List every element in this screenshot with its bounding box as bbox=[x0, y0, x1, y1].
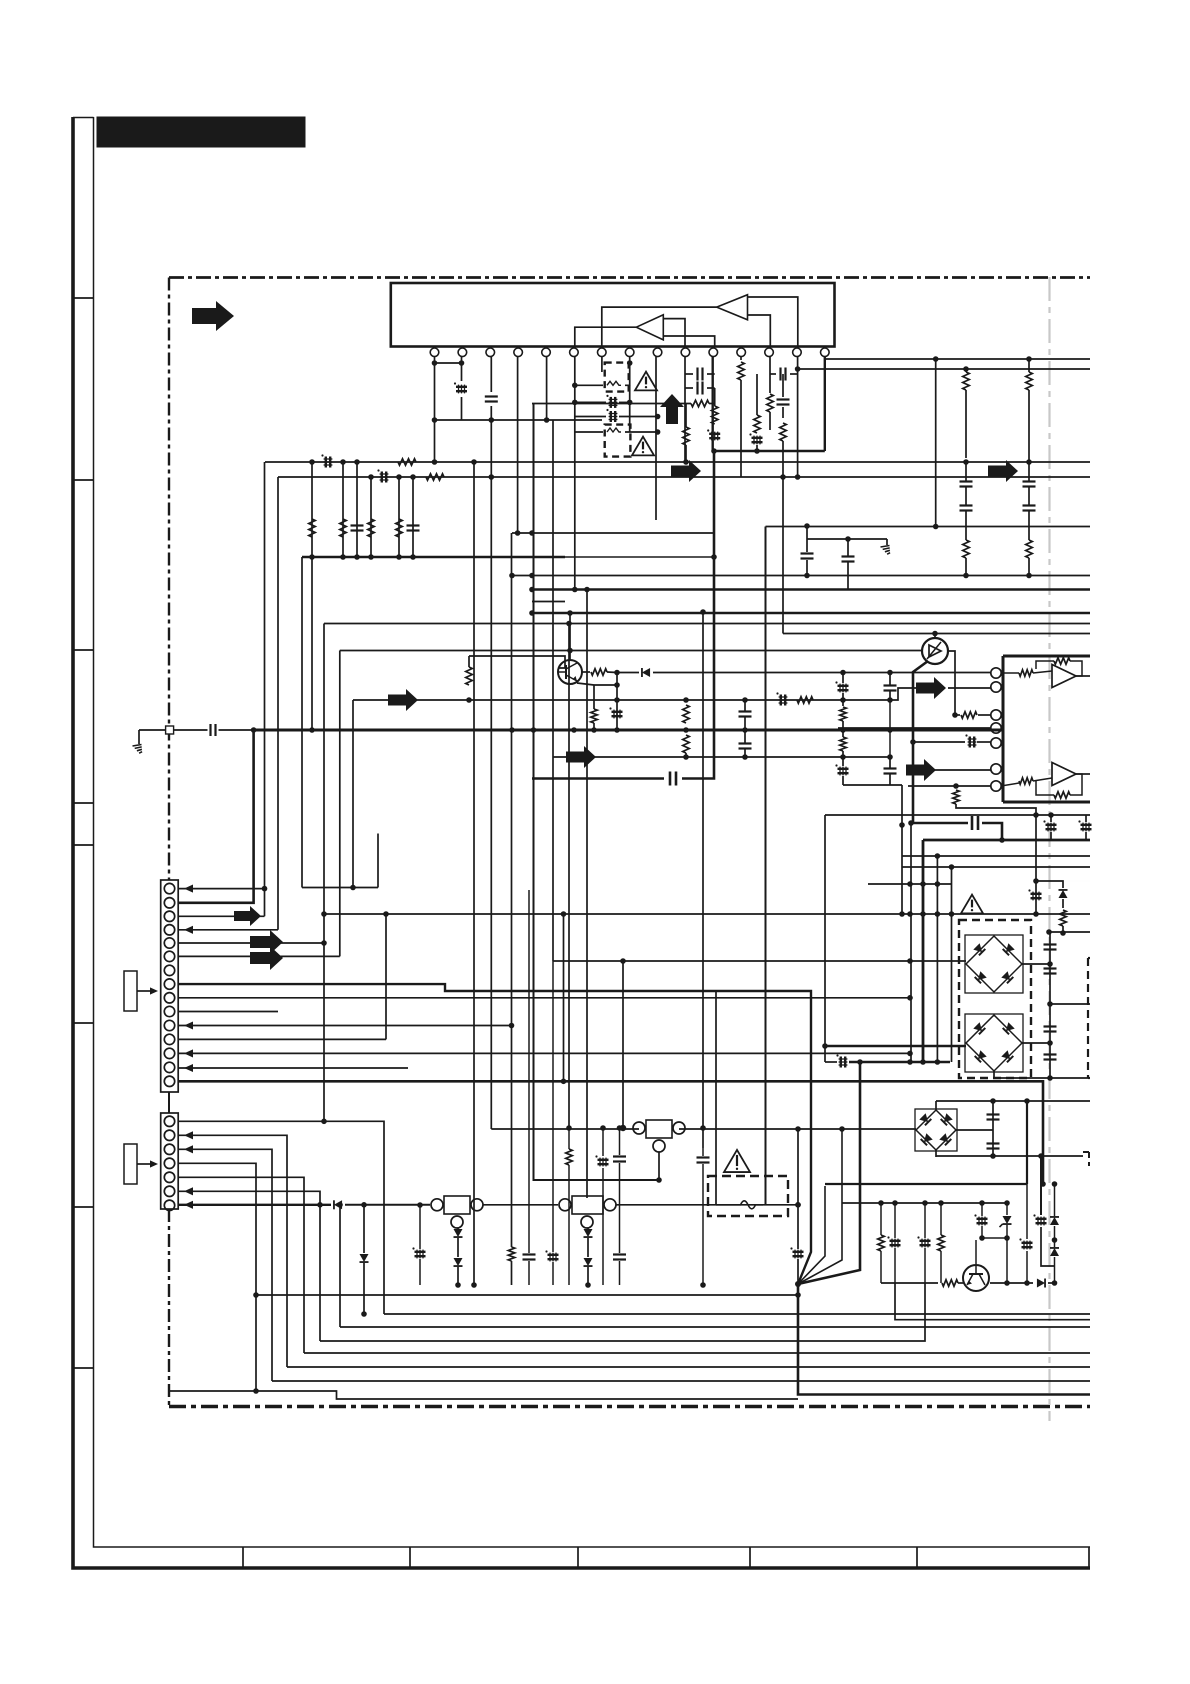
connector J1 pin 11 bbox=[164, 1020, 174, 1030]
capacitor C35 (electrolytic) bbox=[1031, 893, 1042, 895]
resistor R38 bbox=[840, 707, 847, 721]
wire R2 v bbox=[685, 403, 687, 427]
wire F3 left lead bbox=[716, 1204, 733, 1206]
diode D8 bbox=[1050, 1248, 1059, 1256]
resistor R23 bbox=[953, 790, 960, 804]
junction y884 bbox=[907, 881, 913, 887]
resistor R31 bbox=[878, 1235, 885, 1251]
wire D2-REG1 bbox=[345, 1204, 430, 1206]
transistor Q2 (buffer) bbox=[922, 638, 948, 664]
wire J1.11 bbox=[179, 1025, 512, 1027]
resistor R17 bbox=[396, 519, 403, 537]
wire R11 d bbox=[1028, 558, 1030, 576]
wire R10 t bbox=[1028, 359, 1030, 372]
fold line (grey dash-dot) bbox=[1048, 277, 1050, 1421]
U1 pin 15 bbox=[821, 348, 830, 357]
resistor R12 bbox=[398, 459, 416, 466]
wire x603 col bbox=[602, 1128, 604, 1156]
junction y557 bbox=[410, 554, 416, 560]
resistor R37 bbox=[591, 709, 598, 723]
junction REG3b bbox=[656, 1177, 662, 1183]
resistor R9 bbox=[963, 540, 970, 558]
junction V2 bbox=[410, 474, 416, 480]
wire R22 out bbox=[978, 714, 991, 716]
junction bus730 bbox=[614, 727, 620, 733]
wire rail y932 bbox=[1049, 931, 1090, 933]
wire bus b5 bbox=[304, 1352, 1090, 1354]
junction pin8 bbox=[627, 360, 633, 366]
page inner border (thin) bbox=[94, 117, 1091, 1547]
wire drop x587 bbox=[586, 590, 588, 1199]
junction C31 in bbox=[910, 739, 916, 745]
wire REG3 bottom stub bbox=[658, 1152, 660, 1180]
capacitor C40 bbox=[1044, 1053, 1057, 1055]
wire R28 d bbox=[1062, 926, 1064, 933]
wire rail y613 (thick) bbox=[532, 612, 1090, 614]
junction x798 y1205 bbox=[795, 1202, 801, 1208]
capacitor C28 bbox=[884, 684, 897, 686]
capacitor C52 (electrolytic) bbox=[977, 1218, 988, 1220]
capacitor C26 bbox=[842, 555, 855, 557]
wire net y757 bbox=[553, 756, 890, 758]
capacitor C23 bbox=[739, 742, 752, 744]
wire ground stub bbox=[138, 730, 140, 744]
capacitor C36 (electrolytic) bbox=[840, 1057, 842, 1068]
capacitor C7 (electrolytic) bbox=[709, 433, 720, 435]
capacitor C37 bbox=[1044, 943, 1057, 945]
capacitor C32 (electrolytic) bbox=[1046, 824, 1057, 826]
wire x951 drop bbox=[951, 867, 953, 1062]
wire op2 out bbox=[1076, 773, 1090, 775]
wire net V2 (y477) bbox=[278, 476, 1090, 478]
wire C32 v bbox=[1050, 815, 1052, 822]
junction x703 y1285 bbox=[700, 1282, 706, 1288]
connector J1 pin 6 bbox=[164, 951, 174, 961]
connector J2 body bbox=[161, 1113, 179, 1209]
U1 pin14 drop bbox=[797, 357, 799, 477]
capacitor C25 bbox=[801, 552, 814, 554]
fuse F3 symbol bbox=[733, 1201, 763, 1209]
resistor R10 bbox=[1026, 372, 1033, 390]
junction y557 bbox=[340, 554, 346, 560]
junction R7b bbox=[780, 474, 786, 480]
connector J2 pin 5 bbox=[164, 1172, 174, 1182]
connector J2 pin 1 bbox=[164, 1116, 174, 1126]
bottom strip divider bbox=[242, 1547, 244, 1568]
REG1 pin bottom bbox=[451, 1216, 463, 1228]
resistor R27 (feedback) bbox=[1054, 792, 1070, 799]
wire Q1 emitter bbox=[577, 683, 594, 685]
wire C19 to bus bbox=[219, 729, 254, 731]
junction C52t bbox=[979, 1200, 985, 1206]
wire rail y815 bbox=[825, 814, 1090, 816]
junction fan bbox=[795, 1281, 801, 1287]
junction pin7 tap bbox=[953, 783, 959, 789]
ground GND1 bbox=[133, 745, 142, 747]
junction y1062 bbox=[920, 1059, 926, 1065]
junction y1391 x256 bbox=[253, 1388, 259, 1394]
junction pin1 y462 bbox=[432, 459, 438, 465]
block input pin 4 bbox=[991, 723, 1001, 733]
junction y1283 x1054 bbox=[1052, 1280, 1058, 1286]
signal arrow A7 bbox=[916, 677, 946, 699]
junction y1129 x798 bbox=[795, 1126, 801, 1132]
wire R9 d bbox=[965, 558, 967, 576]
wire C5 link bbox=[685, 373, 693, 375]
fuse F1 box (dashed) bbox=[605, 363, 629, 392]
wire fan leg x824 bbox=[798, 1186, 825, 1284]
capacitor C4 (electrolytic series) bbox=[610, 411, 612, 422]
wire x783 riser bbox=[782, 477, 784, 634]
U1 pin 11 bbox=[709, 348, 718, 357]
junction J2.6 x320 bbox=[317, 1202, 323, 1208]
junction Q1c bbox=[567, 648, 573, 654]
wire J1.1 bbox=[179, 888, 265, 890]
wire C53 v bbox=[1040, 1156, 1042, 1215]
connector J1 pin 2 bbox=[164, 898, 174, 908]
diode D1 bbox=[1059, 890, 1068, 898]
signal arrow A2 (up, under U1) bbox=[660, 394, 684, 424]
junction BR3 t bbox=[990, 1098, 996, 1104]
wire C22 links bbox=[744, 700, 746, 711]
connector J1 pin 13 bbox=[164, 1048, 174, 1058]
wire rail y451 (thick) bbox=[713, 450, 825, 453]
wire drop x703 bbox=[702, 612, 704, 1148]
wire rail y575 bbox=[512, 575, 1090, 577]
wire drop x474 bbox=[473, 462, 475, 1285]
junction y757 x843 bbox=[840, 754, 846, 760]
U1 pin 7 bbox=[597, 348, 606, 357]
junction y451a bbox=[711, 448, 717, 454]
REG3 pin left bbox=[633, 1122, 645, 1134]
wire x617 drop bbox=[616, 673, 618, 731]
wire C6 l bbox=[685, 387, 693, 389]
page margin tick bbox=[73, 1022, 94, 1024]
junction x364 b bbox=[361, 1311, 367, 1317]
U1 pin 10 bbox=[681, 348, 690, 357]
wire x619 col bbox=[619, 1128, 621, 1155]
junction y1295 bbox=[795, 1292, 801, 1298]
capacitor C8 bbox=[779, 368, 781, 381]
U1 pin11 drop (bus) bbox=[712, 357, 714, 451]
resistor R7 bbox=[780, 423, 787, 441]
junction Q2t bbox=[932, 631, 938, 637]
wire net left V1 start bbox=[264, 462, 266, 916]
wire C1 bottom bbox=[461, 397, 463, 420]
wire BR3 top rail bbox=[936, 1100, 1090, 1102]
wire net y785 bbox=[843, 784, 902, 786]
signal arrow A5 bbox=[388, 689, 418, 711]
junction C53t bbox=[1038, 1153, 1044, 1159]
connector J1 pin 8 bbox=[164, 979, 174, 989]
junction p1 rail bbox=[432, 417, 438, 423]
diode D2 bbox=[334, 1200, 342, 1209]
block input pin 5 bbox=[991, 738, 1001, 748]
capacitor C16 (electrolytic series) bbox=[381, 472, 383, 483]
wire rail y651 bbox=[340, 650, 922, 652]
wire pin5 feed bbox=[913, 741, 965, 743]
U1 pin 12 bbox=[737, 348, 746, 357]
block input pin 6 bbox=[991, 764, 1001, 774]
wire x890 mid bbox=[889, 700, 891, 757]
capacitor C42 bbox=[987, 1142, 1000, 1144]
wire C23 links bbox=[744, 730, 746, 743]
diode D11 (series) bbox=[642, 668, 650, 677]
wire R38 d bbox=[842, 721, 844, 737]
wire C9 v bbox=[782, 374, 784, 397]
wire R8 t bbox=[965, 369, 967, 372]
wire rail y403 bbox=[532, 403, 691, 405]
U1 pin 14 bbox=[793, 348, 802, 357]
wire D8 v bbox=[1054, 1257, 1056, 1283]
wire drop x302 bbox=[301, 557, 303, 888]
junction R28b bbox=[1060, 930, 1066, 936]
junction R8c bbox=[963, 459, 969, 465]
page margin tick bbox=[73, 1206, 94, 1208]
signal arrow A6 bbox=[566, 746, 596, 768]
wire net y961 bbox=[553, 960, 966, 962]
wire x895 ext bbox=[895, 1283, 1090, 1320]
junction V1 bbox=[309, 459, 315, 465]
junction y1203 x941 bbox=[938, 1200, 944, 1206]
wire D1 v bbox=[1062, 899, 1064, 908]
wire net y1203 bbox=[842, 1202, 1007, 1204]
REG1 pin right bbox=[471, 1199, 483, 1211]
wire drop x357 bbox=[356, 462, 358, 557]
wire J1.3 bbox=[179, 915, 265, 917]
wire net y823 (thick) bbox=[913, 822, 968, 825]
wire drop x716 bbox=[715, 991, 717, 1205]
wire y1062 l bbox=[825, 1061, 837, 1063]
wire net y672 right bbox=[653, 672, 991, 674]
capacitor C9 bbox=[777, 398, 790, 400]
diode D7 bbox=[1050, 1217, 1059, 1225]
U1 internal amp A (triangle) bbox=[717, 295, 748, 320]
capacitor C30 bbox=[884, 767, 897, 769]
resistor R30 bbox=[508, 1247, 515, 1261]
wire Q1 out bbox=[582, 671, 590, 673]
junction R21a bbox=[683, 697, 689, 703]
U1 wire ampB in1 bbox=[663, 319, 685, 347]
wire R6 up bbox=[756, 374, 758, 415]
amplifier block bottom (thick) bbox=[1003, 801, 1090, 804]
junction y557 bbox=[354, 554, 360, 560]
capacitor C12 bbox=[960, 504, 973, 506]
resistor R33 bbox=[942, 1280, 958, 1287]
wire J1.12 bbox=[179, 1038, 387, 1040]
bottom strip divider bbox=[749, 1547, 751, 1568]
junction x623 t bbox=[620, 958, 626, 964]
U1 wire ampB in2 bbox=[663, 336, 714, 347]
capacitor C24 (series thick) bbox=[669, 772, 672, 786]
wire x923 drop (thick) bbox=[922, 840, 925, 1062]
junction y914 bbox=[899, 911, 905, 917]
wire bus b4 bbox=[320, 1283, 925, 1341]
junction x474 t bbox=[471, 459, 477, 465]
label box K2 bbox=[124, 1144, 137, 1184]
boundary top (dash-dot) bbox=[169, 276, 1090, 279]
junction F1 in bbox=[572, 383, 578, 389]
wire boundary stub y1391 bbox=[169, 1391, 798, 1399]
junction x843 y730 bbox=[840, 727, 846, 733]
wire C5 right bbox=[707, 373, 715, 375]
connector J1 pin 5 bbox=[164, 938, 174, 948]
wire bus b3 bbox=[340, 1326, 1090, 1328]
zener diode D6 bbox=[1003, 1216, 1012, 1224]
wire x1050 bot stub bbox=[1050, 1077, 1090, 1079]
capacitor C19 (series) bbox=[209, 724, 211, 736]
U1 wire ampA in2 bbox=[748, 315, 771, 347]
resistor R5 bbox=[767, 394, 774, 412]
wire net y1129 right bbox=[679, 1128, 916, 1130]
wire x569 upper bbox=[568, 624, 570, 1129]
wire R10 down bbox=[1028, 390, 1030, 460]
wire x517 join bbox=[517, 532, 519, 534]
REG2 pin right bbox=[604, 1199, 616, 1211]
wire x911 drop bbox=[910, 823, 912, 1062]
capacitor C47 bbox=[523, 1253, 536, 1255]
REG2 pin left bbox=[559, 1199, 571, 1211]
junction C25d bbox=[804, 573, 810, 579]
op-amp OP1 bbox=[1052, 665, 1076, 688]
resistor R6 bbox=[754, 415, 761, 433]
junction y914 bbox=[949, 911, 955, 917]
U1 pin12 drop bbox=[740, 357, 742, 360]
boundary left lower (dash-dot) bbox=[168, 1209, 170, 1406]
wire C8 r bbox=[790, 373, 797, 375]
wire J2.3 bbox=[179, 1149, 273, 1381]
wire C8 l bbox=[770, 373, 776, 375]
junction C51t bbox=[922, 1200, 928, 1206]
wire drop x413 bbox=[412, 477, 414, 557]
capacitor C48 (electrolytic) bbox=[548, 1254, 559, 1256]
wire rail y369 bbox=[798, 368, 1090, 370]
junction p14 y369 bbox=[795, 366, 801, 372]
regulator REG1 body bbox=[444, 1196, 470, 1214]
junction x617 y672 bbox=[614, 670, 620, 676]
wire A8 to pin6 bbox=[918, 769, 991, 771]
junction y557 bbox=[396, 554, 402, 560]
wire C11 link bbox=[965, 462, 967, 481]
junction x825 y1046 bbox=[822, 1043, 828, 1049]
wire BR2 right bbox=[1022, 1042, 1050, 1044]
ground GND2 bbox=[881, 546, 890, 548]
wire J1.13 bbox=[179, 1052, 911, 1054]
wire main bus y730 (thick) bbox=[254, 729, 1003, 732]
wire y533 link bbox=[512, 532, 714, 534]
junction REG2b rail bbox=[585, 1282, 591, 1288]
regulator REG2 body bbox=[572, 1196, 603, 1214]
junction x532 y591 bbox=[529, 587, 535, 593]
junction pre-REG1 bbox=[361, 1202, 367, 1208]
connector J1 pin 15 bbox=[164, 1076, 174, 1086]
wire drop x312 bbox=[311, 462, 313, 730]
wire BR3 top link bbox=[935, 1101, 937, 1110]
wire C30 v bbox=[889, 757, 891, 768]
amplifier block edge (thick) bbox=[1002, 656, 1005, 802]
wire x629 fuse col bbox=[629, 385, 631, 432]
wire REG2 out bbox=[616, 1204, 798, 1206]
wire x1050 column bbox=[1049, 933, 1051, 1078]
wire y1283 right bbox=[990, 1282, 1033, 1284]
wire x825 drop bbox=[824, 815, 826, 1046]
wire F2 in bbox=[575, 431, 603, 433]
junction x1050 b bbox=[1047, 1075, 1053, 1081]
wire C27 v bbox=[842, 673, 844, 684]
junction C27t bbox=[840, 670, 846, 676]
wire C6 r bbox=[707, 387, 715, 389]
wire J2.1 bbox=[179, 1121, 385, 1314]
wire C24 to corner (thick) bbox=[682, 451, 714, 779]
wire G2 gnd stub bbox=[886, 539, 888, 545]
signal arrow A9 (connector J1 pin3) bbox=[234, 906, 261, 926]
capacitor C53 (electrolytic) bbox=[1036, 1218, 1047, 1220]
junction R37b bbox=[591, 727, 597, 733]
diode D5 bbox=[454, 1258, 463, 1266]
wire BR2 left (thick) bbox=[825, 1045, 966, 1047]
resistor R26 bbox=[1019, 778, 1033, 785]
wire net V1 (y462) bbox=[265, 461, 1090, 463]
signal arrow A4 bbox=[988, 460, 1018, 482]
page margin tick bbox=[73, 479, 94, 481]
wire BR3 right bbox=[956, 1129, 993, 1131]
junction x532 y575 bbox=[529, 573, 535, 579]
diode D12 bbox=[584, 1229, 593, 1237]
U1 wire ampA in1 bbox=[748, 297, 798, 347]
junction y815 x1036 bbox=[1033, 812, 1039, 818]
wire J1.15 (thick) bbox=[179, 1081, 1044, 1184]
junction R9b bbox=[963, 573, 969, 579]
junction x563 t bbox=[561, 911, 567, 917]
wire under-IC rail bbox=[435, 419, 603, 421]
fuse F3 box (dashed) bbox=[708, 1176, 788, 1216]
wire ground entry bbox=[139, 729, 166, 731]
junction x623 b bbox=[620, 1125, 626, 1131]
block input pin 1 bbox=[991, 668, 1001, 678]
wire x1050 stub bbox=[1050, 1003, 1090, 1005]
wire drop x765 bbox=[765, 527, 767, 1205]
U1 pin 8 bbox=[625, 348, 634, 357]
wire x1036 jog bbox=[1036, 881, 1063, 888]
junction y1283 x1007 bbox=[1004, 1280, 1010, 1286]
junction G2a bbox=[804, 523, 810, 529]
wire J2.6 bbox=[179, 1191, 321, 1341]
capacitor C44 bbox=[613, 1155, 626, 1157]
resistor R29 bbox=[566, 1149, 573, 1165]
wire C10 d bbox=[756, 445, 758, 451]
capacitor C50 (electrolytic) bbox=[890, 1240, 901, 1242]
REG1 pin left bbox=[431, 1199, 443, 1211]
capacitor C29 (electrolytic) bbox=[838, 768, 849, 770]
junction x491 y477 bbox=[489, 474, 495, 480]
wire rail y589 (thick) bbox=[532, 588, 1090, 590]
wire C3 out bbox=[619, 401, 630, 403]
wire drop x553 bbox=[552, 420, 554, 961]
resistor R8 bbox=[963, 372, 970, 390]
wire R7 d bbox=[782, 441, 784, 477]
capacitor C5 bbox=[696, 368, 698, 381]
wire R37 feed bbox=[593, 685, 595, 709]
wire x937 drop bbox=[936, 856, 938, 1062]
wire drop x563 bbox=[563, 914, 565, 1081]
wire Q2 emitter (thick) bbox=[913, 661, 928, 823]
bottom strip divider bbox=[916, 1547, 918, 1568]
U1 pin 13 bbox=[765, 348, 774, 357]
wire C25 d bbox=[806, 560, 808, 576]
wire R8 down bbox=[965, 390, 967, 458]
junction x474 b bbox=[471, 1282, 477, 1288]
bridge rectifier BR1 bbox=[965, 935, 1023, 993]
